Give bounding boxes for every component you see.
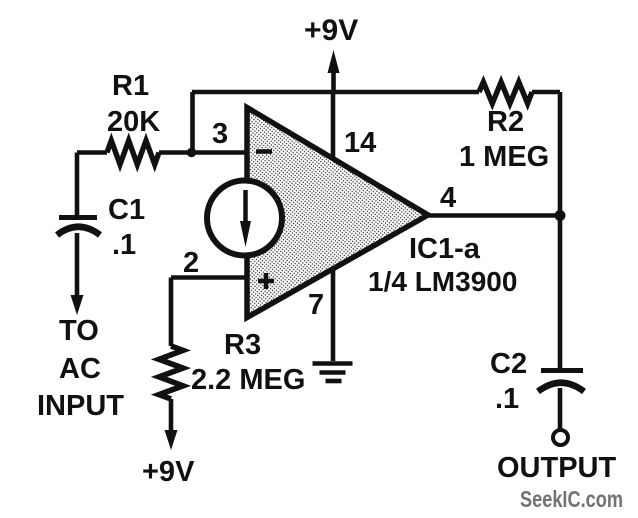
arrow to AC input [71,295,84,315]
current source inside op-amp [207,181,282,256]
wire feedback left leg [190,92,195,153]
capacitor C2 [538,371,584,392]
wire pin 2 [171,278,247,347]
svg-text:AC: AC [59,353,101,385]
svg-text:SeekIC.com: SeekIC.com [520,486,623,512]
svg-text:C2: C2 [490,348,527,380]
svg-text:7: 7 [308,289,324,321]
svg-text:TO: TO [59,315,99,347]
node junction output [555,210,566,221]
wire top feedback rail [192,90,560,95]
resistor R2 [479,82,532,104]
svg-text:4: 4 [440,182,456,214]
wire C1 down to input arrow [75,233,80,296]
svg-text:.1: .1 [495,383,519,415]
wire pin 14 [331,92,336,160]
wire C2 down to output terminal [558,388,563,430]
svg-text:1/4 LM3900: 1/4 LM3900 [368,266,517,297]
op-amp IC1-a triangle [247,108,428,318]
svg-text:1 MEG: 1 MEG [459,141,549,173]
svg-text:.1: .1 [112,229,136,261]
svg-text:R2: R2 [487,106,524,138]
svg-text:INPUT: INPUT [37,390,124,422]
resistor R1 [107,141,159,165]
wire +9V arrow shaft [331,62,336,92]
capacitor C1 [57,218,100,236]
wire output pin 4 [428,213,560,218]
svg-text:R3: R3 [224,329,261,361]
wire input to pin 3 [77,150,247,155]
wire R3 down [169,399,174,431]
ground [313,364,353,382]
svg-text:14: 14 [344,127,376,159]
svg-text:20K: 20K [107,106,160,138]
svg-text:2: 2 [183,247,199,279]
svg-text:3: 3 [212,118,228,150]
svg-text:2.2 MEG: 2.2 MEG [191,364,305,396]
plus input mark [258,273,274,289]
svg-text:OUTPUT: OUTPUT [497,452,617,484]
minus input mark [256,149,272,154]
svg-text:R1: R1 [112,70,149,102]
wire right rail [558,92,563,368]
output terminal [553,430,568,445]
wire pin 7 [331,270,336,362]
node junction pin3 [187,148,196,157]
wire left down to C1 [75,153,80,218]
svg-text:C1: C1 [108,194,145,226]
arrow to +9V bottom [165,430,178,450]
svg-text:+9V: +9V [304,14,358,47]
svg-text:IC1-a: IC1-a [409,233,481,265]
arrow +9V top [328,50,340,73]
resistor R3 [159,346,183,399]
svg-text:+9V: +9V [142,456,195,488]
